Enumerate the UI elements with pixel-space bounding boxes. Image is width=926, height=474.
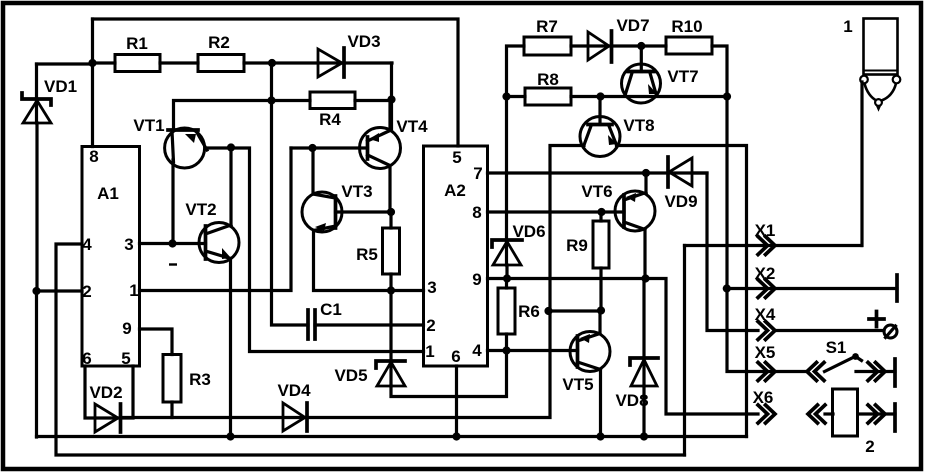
- svg-text:8: 8: [472, 203, 481, 222]
- svg-text:VD5: VD5: [334, 366, 367, 385]
- svg-text:C1: C1: [320, 300, 342, 319]
- resistor R9: [566, 212, 609, 311]
- wire A1 pin1 right and up to VT4 base wire: [140, 148, 292, 291]
- svg-text:R2: R2: [208, 33, 230, 52]
- svg-text:VD8: VD8: [615, 391, 648, 410]
- svg-text:4: 4: [82, 235, 92, 254]
- svg-text:6: 6: [451, 347, 460, 366]
- stray dash mark: [169, 263, 177, 265]
- svg-text:VD6: VD6: [512, 222, 545, 241]
- svg-text:VT2: VT2: [185, 200, 216, 219]
- connector X5: [755, 343, 824, 381]
- connector X6: [753, 388, 825, 423]
- svg-text:VT3: VT3: [341, 182, 372, 201]
- svg-text:2: 2: [82, 282, 91, 301]
- resistor R1: [93, 34, 199, 72]
- node VT1-VT2 collectors: [227, 143, 235, 151]
- svg-text:A1: A1: [97, 184, 119, 203]
- node R9 top: [597, 208, 605, 216]
- resistor R6: [498, 279, 540, 351]
- wire X1 left down to rail2: [683, 246, 686, 456]
- svg-text:A2: A2: [444, 181, 466, 200]
- svg-text:1: 1: [425, 342, 434, 361]
- wire VT1 emitter to pin3 node: [171, 160, 174, 244]
- wire A2 pin7: [488, 171, 708, 174]
- svg-text:2: 2: [426, 316, 435, 335]
- wire A1 pin3 to VT2 base: [140, 242, 206, 245]
- node VD7-R10-VT7: [637, 42, 645, 50]
- device 2 socket: [825, 389, 895, 456]
- diode VD7: [588, 16, 666, 62]
- svg-text:3: 3: [427, 278, 436, 297]
- IC A1: [82, 147, 140, 369]
- svg-text:VT8: VT8: [623, 116, 654, 135]
- diode VD1: [22, 64, 93, 291]
- node pin6 on rail: [452, 432, 460, 440]
- bottom rail 1: [37, 435, 747, 438]
- wire X2 line: [727, 287, 897, 290]
- wire A2 pin6 down: [455, 366, 458, 437]
- wire VT6 collector down to pin9 wire: [643, 230, 646, 279]
- wire VD3 cathode down to VT4 emitter: [390, 63, 393, 129]
- node R4 left: [267, 96, 275, 104]
- svg-text:X6: X6: [753, 388, 774, 407]
- wire top supply from pin8 node to A2 pin 5: [93, 19, 459, 146]
- transistor VT2: [185, 200, 239, 263]
- node R4 right: [387, 95, 395, 103]
- probe 1 body: [843, 17, 900, 110]
- diode VD4: [122, 146, 584, 432]
- svg-text:3: 3: [124, 235, 133, 254]
- resistor R7: [507, 17, 612, 265]
- svg-text:VD2: VD2: [89, 383, 122, 402]
- svg-text:X1: X1: [755, 221, 776, 240]
- switch S1 fixed side: [856, 359, 895, 386]
- wire R2 node down to C1: [272, 63, 309, 325]
- node VT5 on rail: [596, 432, 604, 440]
- svg-text:9: 9: [122, 319, 131, 338]
- wire pin8 vertical A1: [91, 19, 94, 147]
- svg-text:VD1: VD1: [44, 77, 77, 96]
- switch S1 lever: [825, 338, 862, 372]
- wire A1 pin4 left and down to lower rail2: [56, 244, 685, 455]
- zener diode VD5: [334, 291, 506, 397]
- wire A1 pin2 to VD1 line: [37, 289, 83, 292]
- wire VT1 base feed: [174, 101, 272, 130]
- svg-text:X4: X4: [755, 305, 776, 324]
- svg-text:X5: X5: [755, 343, 776, 362]
- svg-text:VT5: VT5: [562, 375, 593, 394]
- zener diode VD6: [492, 222, 546, 279]
- wire VT5 emitter down to rail: [599, 370, 602, 437]
- wire VD1 anode to bottom rail: [35, 291, 38, 437]
- resistor R3: [140, 329, 211, 418]
- node VT2 on rail: [226, 432, 234, 440]
- wire VT5 collector up: [598, 311, 601, 334]
- svg-text:1: 1: [129, 281, 138, 300]
- svg-text:1: 1: [843, 17, 852, 36]
- svg-text:VT7: VT7: [667, 67, 698, 86]
- svg-text:R7: R7: [536, 17, 558, 36]
- wire VT3 collector: [311, 148, 314, 194]
- connector X2: [755, 264, 776, 298]
- zener diode VD8: [615, 279, 658, 437]
- wire probe to X1: [860, 82, 863, 246]
- node pin7-VT6-VD9: [642, 169, 650, 177]
- node link right / VT5 collector: [597, 306, 605, 314]
- transistor VT8: [580, 97, 655, 157]
- svg-text:R1: R1: [126, 34, 148, 53]
- svg-text:5: 5: [452, 148, 461, 167]
- svg-text:8: 8: [89, 147, 98, 166]
- node R2 out: [268, 59, 276, 67]
- transistor VT7: [622, 46, 699, 103]
- svg-text:R4: R4: [319, 110, 341, 129]
- wire VT4 collector down to R5 node: [388, 166, 391, 213]
- wire VT2 emitter down to bottom rail: [229, 259, 232, 437]
- diode VD2: [85, 366, 133, 432]
- probe contact circle: [884, 325, 897, 338]
- svg-text:9: 9: [472, 270, 481, 289]
- svg-text:X2: X2: [755, 264, 776, 283]
- wire VT4 base: [291, 146, 368, 149]
- svg-text:VD9: VD9: [664, 192, 697, 211]
- node R1-VD1 junction: [88, 59, 96, 67]
- transistor VT5: [562, 332, 610, 395]
- transistor VT3: [302, 182, 373, 232]
- svg-text:R8: R8: [537, 70, 559, 89]
- node pin2-VD1: [32, 287, 40, 295]
- wire VT3 emitter down then right to A2 pin3: [314, 231, 424, 291]
- wire A2 pin9 right, down to X6: [488, 279, 759, 415]
- wire VT3 base to R5 node: [336, 210, 392, 213]
- svg-text:R3: R3: [189, 370, 211, 389]
- IC A2: [424, 146, 488, 366]
- wire VT2 collector up: [229, 148, 232, 227]
- node R5 top: [387, 208, 395, 216]
- connector X1: [685, 221, 862, 255]
- svg-text:VT4: VT4: [396, 117, 428, 136]
- svg-text:VD7: VD7: [616, 16, 649, 35]
- plus symbol: [869, 312, 884, 327]
- svg-text:5: 5: [121, 349, 130, 368]
- svg-text:S1: S1: [826, 338, 847, 357]
- wire VT4 emitter up: [388, 100, 391, 131]
- svg-text:VD4: VD4: [277, 381, 311, 400]
- transistor VT1: [133, 116, 207, 168]
- resistor R8: [507, 70, 728, 105]
- wire R10 corner down through X2 node to X5: [727, 97, 806, 372]
- transistor VT6: [581, 173, 655, 231]
- transistor VT4: [360, 117, 429, 169]
- capacitor C1: [308, 300, 424, 339]
- diode VD9: [664, 157, 758, 331]
- svg-text:2: 2: [865, 437, 874, 456]
- svg-text:VT1: VT1: [133, 116, 164, 135]
- svg-text:R10: R10: [671, 17, 702, 36]
- node link left: [544, 307, 552, 315]
- node X2 tap: [723, 284, 731, 292]
- node pin3-VT1 emitter: [168, 239, 176, 247]
- node VT3 collector on VT4 base wire: [308, 144, 316, 152]
- svg-text:R6: R6: [518, 302, 540, 321]
- diode VD3: [272, 32, 392, 77]
- node R5 bottom: [387, 286, 395, 294]
- connector X4: [755, 305, 884, 340]
- resistor R10: [666, 17, 727, 97]
- node VT6-VD8 on pin9 wire: [641, 274, 649, 282]
- svg-text:VT6: VT6: [581, 182, 612, 201]
- svg-text:VD3: VD3: [347, 32, 380, 51]
- node R8 left: [502, 92, 510, 100]
- wire A2 pin4 to VT5 base: [488, 349, 578, 352]
- svg-text:R5: R5: [356, 245, 378, 264]
- terminal bar X2: [895, 275, 899, 301]
- wire VT8 right lead to rail1: [617, 146, 747, 437]
- svg-text:4: 4: [472, 341, 482, 360]
- node R10-X2: [723, 92, 731, 100]
- resistor R2: [198, 33, 272, 72]
- resistor R4: [272, 92, 392, 129]
- svg-text:R9: R9: [566, 236, 588, 255]
- node VD6 anode on pin9 wire: [503, 274, 511, 282]
- wire VT1 collector to VT2 collector node and down to A2 pin1: [205, 148, 424, 352]
- wire R6-R9 link: [549, 309, 602, 312]
- svg-text:7: 7: [473, 164, 482, 183]
- node R6 bottom on pin4 wire: [502, 346, 510, 354]
- wire A2 pin8 to VT6 base: [488, 210, 625, 213]
- resistor R5: [356, 212, 399, 291]
- node VT8 base tap: [596, 92, 604, 100]
- node VD8 on rail: [640, 432, 648, 440]
